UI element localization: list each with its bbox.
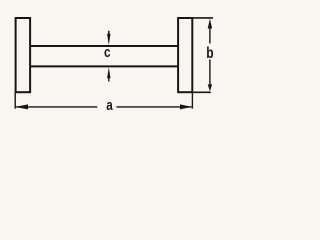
- dimension b line lower segment: [209, 60, 211, 86]
- left flange: [16, 18, 31, 92]
- extension line bottom-right horizontal: [192, 91, 211, 93]
- dimension b bottom arrowhead: [208, 84, 212, 91]
- dimension a left arrowhead: [15, 104, 28, 109]
- extension line bottom-right: [191, 92, 193, 109]
- dimension a right arrowhead: [180, 104, 192, 109]
- svg-text:b: b: [206, 43, 214, 61]
- dimension b line upper segment: [209, 28, 211, 44]
- dimension c lower arrow: [107, 67, 110, 81]
- svg-text:a: a: [106, 97, 113, 114]
- extension line top-right: [192, 17, 213, 19]
- extension line bottom-left: [14, 92, 16, 109]
- web bottom line: [30, 65, 178, 67]
- dimension a line right segment: [116, 106, 191, 108]
- dimension c upper arrow: [107, 31, 110, 46]
- svg-text:c: c: [104, 44, 111, 61]
- dimension b top arrowhead: [208, 19, 212, 29]
- right flange: [178, 18, 192, 92]
- web top line: [30, 45, 178, 47]
- dimension a line left segment: [15, 106, 97, 108]
